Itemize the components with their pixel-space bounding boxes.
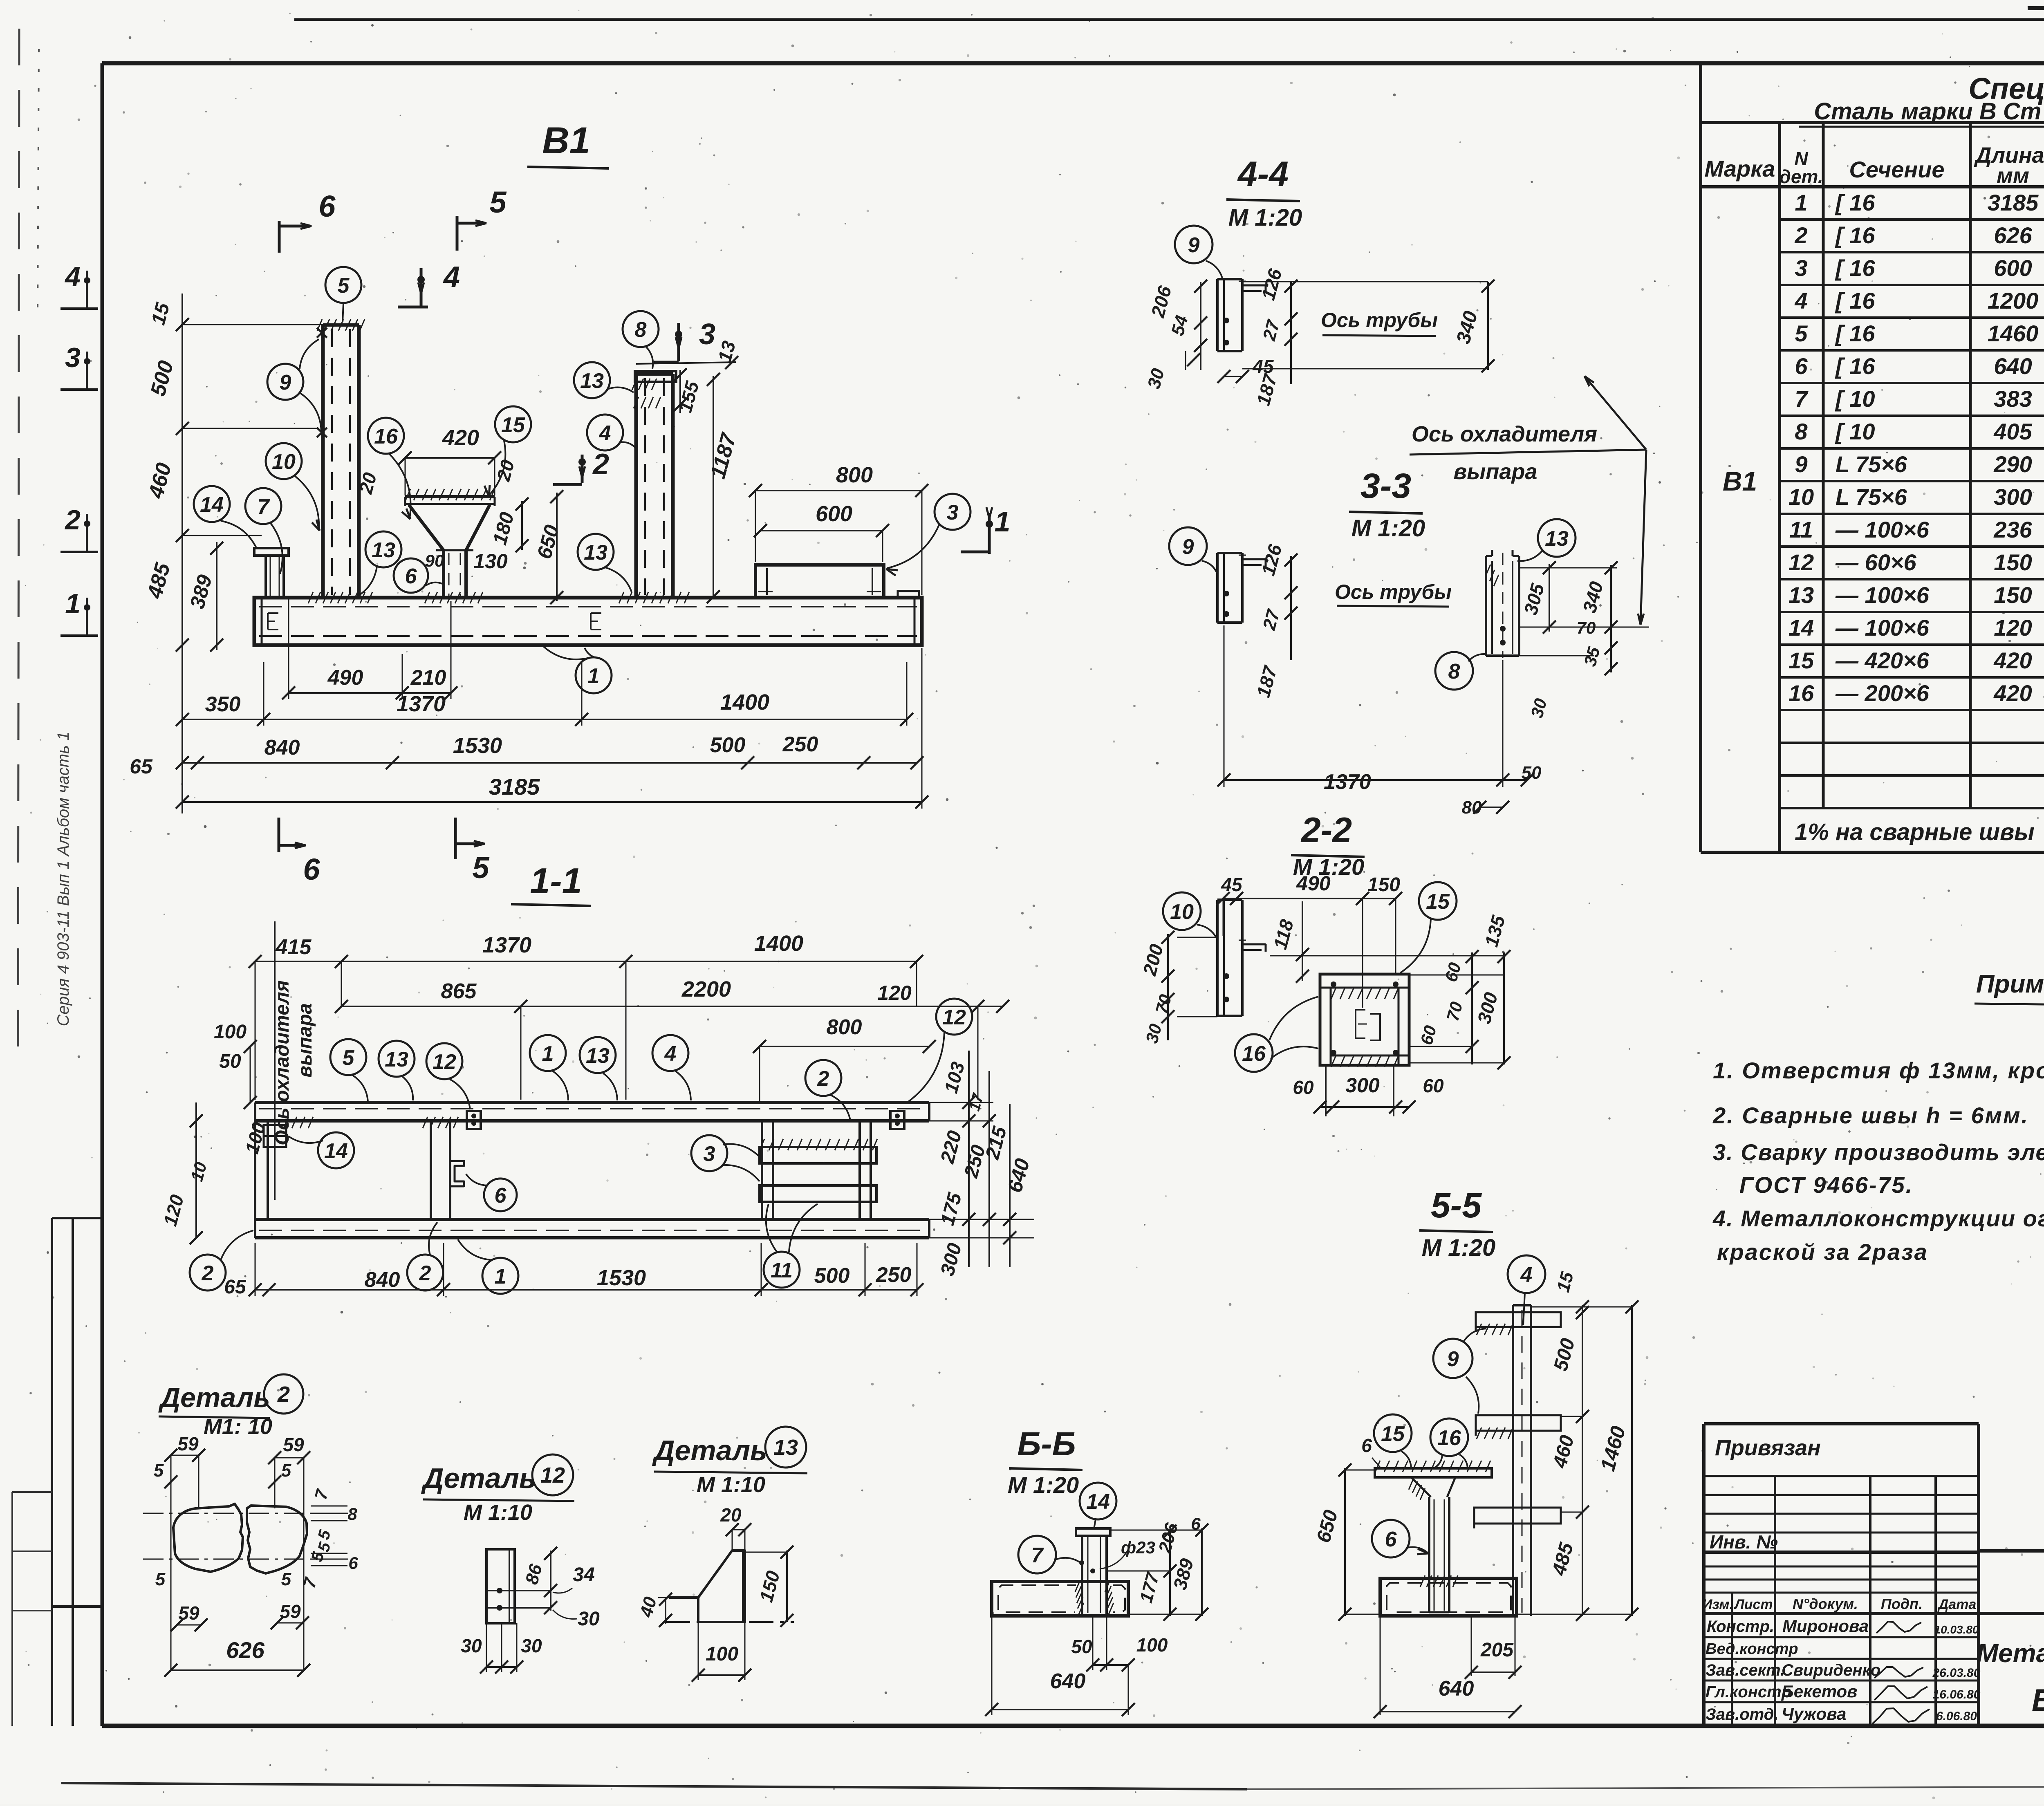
view 1-1 right cross assembly pos.3/11	[761, 1121, 763, 1219]
svg-text:200: 200	[1139, 942, 1167, 978]
svg-text:Вед.констр: Вед.констр	[1706, 1640, 1798, 1658]
svg-text:12: 12	[540, 1463, 565, 1488]
svg-text:340: 340	[1452, 309, 1482, 346]
svg-text:[ 16: [ 16	[1835, 288, 1875, 314]
svg-text:305: 305	[1520, 581, 1548, 617]
svg-text:8: 8	[635, 318, 647, 342]
svg-text:7: 7	[1031, 1544, 1044, 1567]
detail 13 baseline	[666, 1621, 794, 1623]
svg-text:6: 6	[348, 1553, 358, 1573]
1-1 part circles top	[330, 1039, 366, 1075]
svg-text:300: 300	[1994, 484, 2032, 510]
svg-text:65: 65	[130, 755, 153, 778]
svg-text:389: 389	[186, 572, 217, 611]
svg-text:460: 460	[144, 460, 176, 501]
svg-text:5: 5	[489, 185, 507, 219]
svg-text:1460: 1460	[1988, 320, 2039, 346]
svg-text:М 1:20: М 1:20	[1422, 1235, 1496, 1261]
svg-text:1370: 1370	[397, 692, 446, 716]
1-1 right dim block	[968, 1051, 970, 1267]
svg-text:40: 40	[636, 1595, 661, 1620]
svg-text:Зав.отд.: Зав.отд.	[1706, 1705, 1779, 1723]
svg-text:2-2: 2-2	[1300, 811, 1352, 850]
svg-text:6: 6	[1385, 1528, 1397, 1551]
svg-text:2: 2	[817, 1067, 829, 1091]
svg-text:Изм.: Изм.	[1702, 1597, 1733, 1612]
2-2 circle 16	[1235, 1034, 1273, 1072]
B1 dim 420 over funnel	[405, 457, 495, 459]
title block left stamp	[1702, 1424, 1706, 1726]
svg-text:5: 5	[281, 1569, 291, 1589]
svg-text:14: 14	[200, 493, 224, 517]
svg-text:130: 130	[473, 550, 508, 573]
svg-text:9: 9	[1188, 233, 1200, 257]
view 1-1 top beam	[255, 1101, 929, 1104]
svg-text:9: 9	[1447, 1347, 1459, 1371]
3-3 circles 13 and 8	[1538, 519, 1576, 557]
svg-text:Зав.сект.: Зав.сект.	[1706, 1661, 1785, 1679]
svg-text:16: 16	[1242, 1042, 1266, 1066]
svg-text:М 1:10: М 1:10	[464, 1500, 532, 1525]
svg-text:35: 35	[1580, 645, 1604, 668]
svg-text:34: 34	[573, 1564, 594, 1586]
svg-text:177: 177	[1136, 1570, 1163, 1605]
svg-text:— 60×6: — 60×6	[1835, 549, 1917, 575]
svg-text:175: 175	[937, 1190, 966, 1228]
svg-text:4: 4	[443, 261, 460, 294]
svg-text:15: 15	[1788, 648, 1814, 673]
svg-text:1: 1	[65, 588, 81, 619]
svg-text:5: 5	[155, 1569, 166, 1589]
svg-text:13: 13	[385, 1048, 408, 1071]
5-5 shelf pos.9 top	[1476, 1312, 1561, 1327]
left margin stamp strips	[51, 1218, 53, 1726]
detail 13 dims	[786, 1551, 788, 1622]
view 1-1 left end plate	[267, 1121, 269, 1219]
svg-text:4: 4	[1520, 1263, 1533, 1287]
svg-text:150: 150	[1994, 549, 2032, 575]
svg-text:Ось трубы: Ось трубы	[1335, 580, 1452, 603]
svg-text:9: 9	[1182, 535, 1194, 559]
svg-text:5: 5	[281, 1461, 291, 1481]
svg-text:15: 15	[1426, 890, 1450, 914]
svg-text:8: 8	[347, 1504, 357, 1524]
svg-text:150: 150	[755, 1568, 784, 1604]
view 1-1 mid bracket pos.6	[450, 1161, 464, 1186]
svg-text:1530: 1530	[597, 1266, 646, 1290]
svg-text:М1: 10: М1: 10	[204, 1414, 272, 1439]
3-3 right channel pos.13/8	[1485, 556, 1487, 656]
5-5 shelf bottom	[1474, 1508, 1561, 1524]
title block central cells	[1979, 1549, 2044, 1553]
svg-text:дет.: дет.	[1779, 166, 1823, 187]
svg-text:5-5: 5-5	[1431, 1186, 1482, 1225]
2-2 circle 15	[1419, 882, 1457, 920]
svg-text:7: 7	[1795, 386, 1809, 412]
svg-text:236: 236	[1993, 517, 2032, 542]
svg-text:210: 210	[410, 666, 446, 690]
svg-text:415: 415	[276, 935, 312, 959]
svg-text:7: 7	[311, 1487, 332, 1501]
B1 right box pos.3	[755, 565, 884, 598]
svg-text:8: 8	[1795, 419, 1808, 444]
svg-text:1400: 1400	[754, 931, 803, 956]
svg-text:[ 10: [ 10	[1835, 386, 1875, 412]
sheet background noise	[1616, 48, 1617, 50]
svg-text:865: 865	[441, 979, 477, 1003]
svg-text:2: 2	[1794, 222, 1807, 248]
2-2 plate inner channel mark	[1356, 1010, 1365, 1038]
svg-text:1370: 1370	[1324, 770, 1371, 794]
svg-text:15: 15	[1553, 1270, 1578, 1294]
svg-text:206: 206	[1155, 1521, 1182, 1555]
svg-text:300: 300	[1473, 990, 1502, 1026]
svg-text:Гл.констр: Гл.констр	[1706, 1683, 1791, 1701]
detail 2 centerlines	[143, 1513, 348, 1514]
svg-text:3. Сварку производить электр: 3. Сварку производить электродами УОНЦЦ-…	[1713, 1139, 2044, 1165]
5-5 right dim 1460	[1631, 1305, 1633, 1616]
svg-text:50: 50	[219, 1051, 241, 1072]
svg-text:500: 500	[814, 1264, 850, 1288]
svg-text:3: 3	[1795, 255, 1807, 281]
svg-text:70: 70	[1443, 1000, 1466, 1023]
svg-text:350: 350	[205, 692, 241, 716]
svg-text:Сталь марки В Ст 3 кп2 Г: Сталь марки В Ст 3 кп2 ГОСТ 380-71	[1814, 98, 2044, 125]
svg-text:800: 800	[827, 1015, 862, 1039]
svg-text:Чужова: Чужова	[1782, 1704, 1846, 1723]
svg-text:М 1:10: М 1:10	[697, 1472, 765, 1497]
svg-text:ф23: ф23	[1121, 1538, 1155, 1557]
svg-text:4: 4	[664, 1042, 677, 1066]
svg-text:30: 30	[578, 1608, 600, 1630]
svg-text:10: 10	[1170, 900, 1194, 924]
svg-text:3: 3	[65, 342, 81, 373]
svg-text:490: 490	[327, 666, 363, 690]
svg-text:В1: В1	[542, 120, 590, 161]
svg-text:Б-Б: Б-Б	[1017, 1425, 1076, 1463]
detail 2 left blob	[173, 1504, 243, 1572]
svg-text:3: 3	[704, 1142, 715, 1166]
svg-text:12: 12	[1788, 549, 1814, 575]
svg-text:389: 389	[1169, 1556, 1197, 1592]
svg-text:383: 383	[1994, 386, 2032, 412]
svg-text:Марка: Марка	[1705, 156, 1775, 181]
svg-text:300: 300	[1345, 1074, 1380, 1097]
svg-text:13: 13	[1545, 527, 1569, 551]
svg-text:59: 59	[177, 1433, 199, 1454]
svg-text:6.06.80: 6.06.80	[1936, 1710, 1977, 1723]
svg-text:1400: 1400	[720, 690, 769, 715]
svg-text:БОВ-1/12: БОВ-1/12	[2032, 1683, 2044, 1718]
1-1 bottom dim chain	[255, 1289, 269, 1291]
svg-text:290: 290	[1993, 451, 2032, 477]
svg-text:650: 650	[1313, 1508, 1342, 1545]
5-5 left dim 650	[1344, 1468, 1346, 1616]
svg-text:1. Отверстия ф 13мм, кроме ог: 1. Отверстия ф 13мм, кроме оговоренных .	[1713, 1058, 2044, 1083]
svg-text:60: 60	[1293, 1077, 1314, 1098]
svg-text:100: 100	[241, 1120, 269, 1156]
svg-text:6: 6	[303, 852, 320, 886]
svg-text:1: 1	[1795, 190, 1807, 215]
svg-text:10: 10	[1788, 484, 1814, 510]
svg-text:13: 13	[372, 538, 395, 562]
B1 small pad right of box	[898, 591, 919, 598]
svg-text:— 200×6: — 200×6	[1835, 680, 1930, 706]
5-5 circle 9	[1433, 1339, 1472, 1378]
svg-text:86: 86	[522, 1562, 546, 1586]
svg-text:640: 640	[1050, 1669, 1086, 1693]
svg-text:6: 6	[318, 189, 336, 223]
B1 left post pos.7 with cap pos.14	[264, 555, 267, 598]
svg-text:Дата: Дата	[1937, 1597, 1977, 1612]
5-5 bottom dims	[1471, 1616, 1472, 1676]
svg-text:14: 14	[1086, 1490, 1110, 1514]
svg-text:500: 500	[710, 733, 746, 757]
5-5 right dim chain inner	[1582, 1305, 1583, 1616]
B1 right dims 800 600 1187 155 13	[755, 490, 922, 491]
svg-text:2200: 2200	[681, 977, 731, 1002]
svg-text:8: 8	[1448, 660, 1460, 683]
view 1-1 mid vertical pos.2	[430, 1121, 432, 1219]
2-2 bottom dims	[1325, 1065, 1327, 1116]
svg-text:10.03.80: 10.03.80	[1934, 1623, 1979, 1636]
svg-text:6: 6	[405, 565, 417, 588]
svg-text:6: 6	[1361, 1435, 1372, 1456]
svg-text:640: 640	[1439, 1677, 1474, 1701]
svg-text:100: 100	[214, 1021, 247, 1043]
svg-text:250: 250	[876, 1263, 912, 1287]
svg-text:[ 16: [ 16	[1835, 222, 1875, 248]
svg-text:16: 16	[1437, 1426, 1461, 1450]
3-3 circle 9	[1169, 527, 1207, 565]
drawing frame	[102, 61, 2044, 65]
svg-text:26.03.80: 26.03.80	[1932, 1666, 1981, 1680]
svg-text:45: 45	[1221, 874, 1243, 895]
svg-text:13: 13	[714, 338, 740, 364]
svg-text:Констр.: Констр.	[1707, 1618, 1774, 1636]
svg-text:2: 2	[592, 448, 609, 481]
svg-text:Металлоконструкция: Металлоконструкция	[1977, 1638, 2044, 1668]
svg-text:5: 5	[154, 1461, 164, 1481]
2-2 top dim chain	[1223, 898, 1237, 899]
svg-text:340: 340	[1578, 579, 1607, 615]
svg-text:220: 220	[937, 1128, 966, 1166]
svg-text:6: 6	[495, 1184, 507, 1208]
svg-text:60: 60	[1416, 1024, 1440, 1047]
svg-text:6: 6	[1795, 353, 1808, 379]
svg-text:14: 14	[1788, 615, 1814, 641]
5-5 stem pos.6 channel	[1428, 1497, 1430, 1612]
B-B bath channel section	[992, 1582, 1128, 1616]
B1 part circles	[325, 267, 361, 303]
svg-text:4: 4	[1794, 288, 1807, 314]
B-B bottom dims	[1092, 1616, 1094, 1670]
svg-text:13: 13	[773, 1435, 798, 1460]
svg-text:626: 626	[1994, 222, 2032, 248]
svg-text:13: 13	[584, 541, 607, 565]
svg-text:2: 2	[202, 1262, 214, 1285]
view 1-1 left bracket pos.14	[264, 1125, 286, 1147]
svg-text:3: 3	[699, 318, 715, 351]
svg-text:120: 120	[1994, 615, 2032, 641]
svg-text:405: 405	[1993, 419, 2032, 444]
B1 tall column pos.5	[321, 325, 325, 598]
svg-text:650: 650	[533, 522, 564, 561]
B-B tube pos.7	[1081, 1536, 1083, 1615]
5-5 circle 4	[1508, 1255, 1545, 1293]
svg-text:1530: 1530	[453, 733, 502, 758]
svg-text:1187: 1187	[706, 430, 741, 481]
svg-text:1: 1	[995, 506, 1011, 538]
svg-text:1% на сварные швы: 1% на сварные швы	[1795, 819, 2035, 845]
svg-text:4-4: 4-4	[1237, 155, 1289, 194]
1-1 top dim chains	[255, 961, 341, 962]
svg-text:— 100×6: — 100×6	[1835, 517, 1930, 542]
5-5 circle 15	[1374, 1414, 1412, 1452]
svg-text:30: 30	[521, 1635, 542, 1656]
svg-text:215: 215	[982, 1124, 1011, 1162]
svg-text:27: 27	[1259, 607, 1284, 632]
svg-text:Деталь: Деталь	[421, 1462, 536, 1494]
svg-text:10: 10	[272, 450, 296, 474]
svg-text:9: 9	[1795, 451, 1807, 477]
svg-text:Подп.: Подп.	[1881, 1595, 1923, 1612]
svg-text:14: 14	[324, 1139, 348, 1163]
svg-text:5: 5	[338, 274, 350, 298]
svg-text:выпара: выпара	[1454, 459, 1537, 484]
svg-text:выпара: выпара	[294, 1003, 316, 1078]
svg-text:[ 10: [ 10	[1835, 419, 1875, 444]
detail 12 body	[486, 1549, 515, 1623]
svg-text:— 100×6: — 100×6	[1835, 615, 1930, 641]
B1 tall column pos.4 with cap pos.13	[634, 374, 638, 598]
svg-text:640: 640	[1003, 1156, 1034, 1195]
2-2 circle 10	[1163, 892, 1201, 930]
svg-text:50: 50	[1071, 1636, 1092, 1657]
svg-text:1: 1	[542, 1042, 554, 1066]
svg-text:600: 600	[1994, 255, 2032, 281]
svg-text:N°докум.: N°докум.	[1793, 1595, 1858, 1612]
svg-text:2: 2	[64, 504, 81, 536]
svg-text:4: 4	[64, 261, 81, 292]
svg-text:420: 420	[1993, 680, 2032, 706]
svg-text:1: 1	[495, 1265, 507, 1288]
svg-text:Ось охладителя: Ось охладителя	[1412, 422, 1597, 446]
svg-text:В1: В1	[1723, 466, 1757, 496]
svg-text:3: 3	[947, 501, 959, 524]
svg-text:205: 205	[1480, 1639, 1514, 1661]
svg-text:Бекетов: Бекетов	[1782, 1682, 1858, 1701]
svg-text:7: 7	[258, 495, 270, 519]
svg-text:135: 135	[1480, 913, 1509, 949]
view 1-1 bottom beam	[255, 1218, 929, 1221]
svg-text:420: 420	[442, 426, 479, 450]
B-B circle 14	[1080, 1483, 1116, 1519]
svg-text:155: 155	[674, 379, 703, 415]
4-4 channel pos.9	[1216, 279, 1219, 351]
B1 channel E-marks	[268, 612, 278, 614]
svg-text:60: 60	[1423, 1075, 1444, 1096]
svg-text:180: 180	[489, 510, 518, 547]
svg-text:Примечания:: Примечания:	[1976, 970, 2044, 998]
svg-text:59: 59	[280, 1601, 301, 1622]
svg-text:12: 12	[942, 1006, 966, 1029]
detail 2 bottom dim 626	[171, 1669, 304, 1671]
svg-text:420: 420	[1993, 648, 2032, 673]
svg-text:5: 5	[343, 1046, 355, 1070]
svg-text:150: 150	[1367, 874, 1400, 896]
svg-text:L 75×6: L 75×6	[1836, 451, 1907, 477]
svg-text:11: 11	[1789, 517, 1813, 542]
svg-text:10: 10	[187, 1160, 210, 1183]
svg-text:М 1:20: М 1:20	[1008, 1472, 1079, 1498]
svg-text:5: 5	[1795, 320, 1808, 346]
svg-text:100: 100	[706, 1643, 738, 1665]
svg-text:120: 120	[877, 981, 912, 1004]
svg-text:20: 20	[720, 1504, 742, 1526]
svg-text:800: 800	[836, 463, 873, 487]
svg-text:13: 13	[1788, 582, 1814, 608]
svg-text:Деталь: Деталь	[158, 1382, 270, 1413]
svg-text:485: 485	[1548, 1540, 1578, 1578]
svg-text:30: 30	[1142, 1022, 1165, 1045]
5-5 shelf pos.9 middle	[1476, 1415, 1561, 1431]
svg-text:М 1:20: М 1:20	[1228, 204, 1302, 231]
svg-text:— 420×6: — 420×6	[1835, 648, 1930, 673]
svg-text:11: 11	[771, 1259, 793, 1282]
svg-text:5: 5	[314, 1540, 334, 1554]
svg-text:Инв. №: Инв. №	[1710, 1531, 1778, 1553]
svg-text:4. Металлоконструкции огрунто: 4. Металлоконструкции огрунтовать и окра…	[1712, 1205, 2044, 1231]
view 1-1 pos.12 squares	[467, 1111, 481, 1129]
svg-text:30: 30	[1527, 697, 1550, 720]
svg-text:2. Сварные швы h = 6мм.: 2. Сварные швы h = 6мм.	[1712, 1102, 2029, 1128]
svg-text:15: 15	[501, 413, 525, 437]
5-5 column pos.4	[1512, 1305, 1514, 1616]
svg-text:[ 16: [ 16	[1835, 320, 1875, 346]
svg-text:1460: 1460	[1596, 1423, 1630, 1473]
svg-text:103: 103	[940, 1060, 968, 1096]
svg-text:60: 60	[1441, 961, 1464, 984]
svg-text:2: 2	[277, 1382, 290, 1407]
B1 left vertical dims	[182, 294, 183, 813]
svg-text:59: 59	[283, 1434, 304, 1455]
svg-text:118: 118	[1269, 917, 1298, 952]
svg-text:12: 12	[433, 1050, 456, 1074]
svg-text:90: 90	[425, 551, 444, 570]
svg-text:840: 840	[264, 736, 300, 760]
svg-text:1200: 1200	[1988, 288, 2039, 314]
svg-text:206: 206	[1147, 284, 1175, 320]
5-5 funnel sides	[1411, 1477, 1431, 1497]
svg-text:Миронова: Миронова	[1782, 1616, 1869, 1636]
svg-text:13: 13	[580, 369, 604, 393]
svg-text:7: 7	[299, 1575, 320, 1590]
svg-text:1: 1	[588, 664, 600, 688]
svg-text:16: 16	[374, 425, 398, 448]
svg-text:2: 2	[419, 1262, 431, 1285]
B1 bottom dim chains	[289, 692, 402, 694]
svg-text:626: 626	[226, 1637, 264, 1663]
svg-text:Серия 4 903-11 Вып 1: Серия 4 903-11 Вып 1 Альбом часть 1	[54, 732, 72, 1026]
view 1-1 weld marks	[423, 1117, 428, 1128]
svg-text:15: 15	[1381, 1422, 1405, 1446]
svg-text:5: 5	[472, 851, 490, 885]
svg-text:[ 16: [ 16	[1835, 255, 1875, 281]
2-2 plate pos.15/16	[1320, 974, 1409, 1065]
B1 base beam channel pos.1	[254, 598, 922, 645]
svg-text:490: 490	[1296, 872, 1331, 895]
